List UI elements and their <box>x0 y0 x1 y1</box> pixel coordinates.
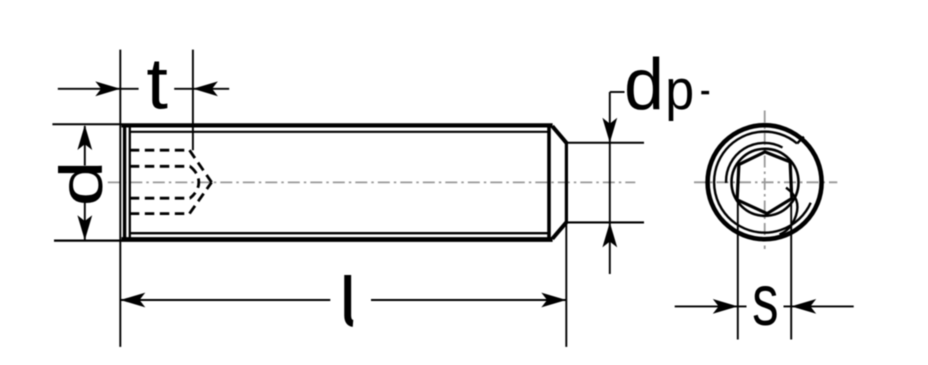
point face line <box>565 143 568 222</box>
arrow d up <box>77 125 92 150</box>
socket drill circle <box>732 149 799 216</box>
screw body left edge <box>123 124 126 241</box>
screw body bottom edge <box>122 237 553 242</box>
socket hidden line outer bottom <box>130 212 190 215</box>
extension line d top <box>52 123 121 125</box>
arrow d down <box>77 215 92 240</box>
dimension s line right <box>784 305 854 307</box>
dimension l line right part <box>371 299 566 301</box>
dimension t line right <box>174 88 229 90</box>
thread crest line bottom <box>131 232 549 234</box>
extension line s right <box>790 202 792 340</box>
socket drill cone bottom <box>190 182 212 213</box>
dimension d line lower <box>84 201 86 240</box>
dimension s line left <box>675 305 747 307</box>
centerline axis of side view <box>108 181 636 183</box>
thread spiral bottom curl <box>780 188 798 235</box>
extension line s left <box>737 200 739 340</box>
arrow l right <box>541 293 566 308</box>
end view horizontal centerline <box>694 181 837 183</box>
socket drill cone top <box>190 150 212 182</box>
label dp: hyphen <box>701 91 709 94</box>
socket bottom arc <box>190 166 199 198</box>
arrow l left <box>120 293 145 308</box>
chamfer bottom diagonal <box>552 222 566 239</box>
chamfer arc hook <box>797 137 804 144</box>
dp leader line <box>610 91 625 93</box>
socket hidden line outer top <box>130 149 190 152</box>
thread crest line top <box>131 131 549 133</box>
dimension t line left <box>58 88 139 90</box>
svg-text:d: d <box>624 45 664 125</box>
dimension l line left part <box>120 299 330 301</box>
screw body top edge <box>122 123 553 127</box>
svg-text:s: s <box>752 261 778 341</box>
extension line dp top <box>566 142 645 144</box>
extension line d bottom <box>54 240 122 242</box>
label l <box>348 275 353 323</box>
arrow t left <box>95 81 120 96</box>
arrow dp down <box>602 118 617 143</box>
arrow s right <box>791 299 816 314</box>
dimension d line upper <box>84 126 86 166</box>
svg-text:d: d <box>48 160 115 206</box>
chamfer top diagonal <box>552 126 566 143</box>
end view vertical centerline <box>764 111 766 250</box>
chamfer circle arc <box>714 132 811 233</box>
svg-text:t: t <box>146 43 168 124</box>
dimension dp upper line <box>609 92 611 274</box>
extension line t right <box>192 50 194 151</box>
arrow dp up <box>602 222 617 247</box>
hex socket <box>737 152 792 214</box>
outer circle of screw <box>708 125 822 239</box>
svg-text:p: p <box>665 58 694 121</box>
socket hidden line inner bottom <box>130 197 191 200</box>
arrow t right <box>193 81 218 96</box>
extension line l right <box>565 222 567 347</box>
extension line left (t/l datum) <box>119 50 121 347</box>
arrow s left <box>713 299 738 314</box>
thread end line <box>547 127 551 239</box>
socket hidden line inner top <box>130 165 191 168</box>
screw left face chamfer line <box>129 127 131 238</box>
extension line dp bottom <box>566 221 645 223</box>
thread spiral top arc <box>726 143 782 183</box>
